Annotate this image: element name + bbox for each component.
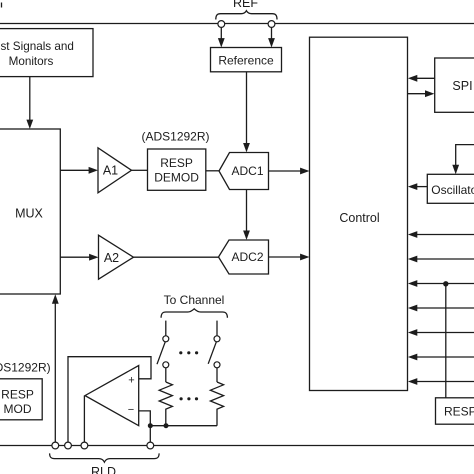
svg-text:Monitors: Monitors [9,55,54,68]
arrowhead RLD pin1 to MUX [52,294,59,303]
box Control [310,37,408,390]
svg-text:To Channel: To Channel [164,293,225,307]
wire ADC1 to Control [269,170,303,172]
wire right pin line 1 to Control [416,234,474,236]
arrowhead Control to SPI [425,90,434,97]
wire Oscillator to Control [416,186,427,188]
svg-text:(ADS1292R): (ADS1292R) [0,361,51,375]
wire Reference to ADC1 [246,72,248,146]
wire A1 to RESP DEMOD [132,169,148,171]
svg-text:Test Signals and: Test Signals and [0,40,74,53]
arrowhead REF pin2 to Reference [268,38,275,47]
svg-text:(ADS1292R): (ADS1292R) [141,130,209,144]
svg-text:REF: REF [233,0,258,10]
svg-text:−: − [128,404,134,416]
svg-text:RESP: RESP [444,405,474,419]
switch right blade [208,342,216,364]
arrowhead Reference to ADC1 [243,143,250,152]
box Test Signals and Monitors [0,29,93,77]
box Reference [211,48,282,72]
dots ellipsis resistors [180,397,183,400]
svg-text:A2: A2 [104,251,119,265]
wire resistor bottoms bus [150,425,217,427]
ADC1 pentagon [219,153,269,190]
box MUX [0,129,60,294]
wire RLD pin 2 to op-amp + input [68,357,151,443]
wire clock input to Oscillator [456,145,474,167]
wire bottom chip edge line [0,445,474,447]
pin circle RLD 4 [147,442,154,449]
wire left switch top stub [165,321,167,336]
arrowhead right line 4 [408,305,417,312]
switch left blade [157,342,165,365]
wire right switch to resistor [216,368,218,382]
junction dot resistor bus left [148,423,153,428]
arrowhead right line 7 [408,378,417,385]
wire A2 to ADC2 [134,256,219,258]
svg-text:A1: A1 [103,164,118,178]
junction dot resistor bus mid [164,423,169,428]
wire Test box to MUX arrow [29,77,31,123]
amplifier A1 [98,148,132,193]
svg-text:ADC1: ADC1 [231,164,263,178]
arrowhead SPI to Control [408,75,417,82]
arrowhead Oscillator to Control [408,183,417,190]
box RESP [436,398,474,424]
svg-text:RESP: RESP [1,387,34,401]
arrowhead right line 6 [408,354,417,361]
wire Control to SPI [408,93,428,95]
box RESP MOD [0,379,42,420]
arrowhead MUX to A2 [89,254,98,261]
brace To Channel [161,309,227,318]
junction diamond on right line 3 [443,281,448,286]
pin circle REF 2 [268,21,275,28]
wire right pin line 6 to Control [416,356,474,358]
svg-text:ADC2: ADC2 [231,250,263,264]
pin circle RLD 3 [81,442,88,449]
dots ellipsis switches [179,351,182,354]
switch circle left top [163,336,169,342]
wire right pin line 4 to Control [416,307,474,309]
wire right switch top stub [216,321,218,336]
svg-text:MUX: MUX [15,207,43,221]
wire RLD pin 1 to MUX [54,302,56,443]
brace RLD [50,453,160,462]
pin circle RLD 1 [52,442,59,449]
pin circle REF 1 [218,21,225,28]
box SPI [435,58,474,112]
arrowhead right line 3 [408,280,417,287]
pin circle RLD 2 [65,442,72,449]
wire junction to RESP box [445,284,447,398]
arrowhead right line 5 [408,329,417,336]
switch circle right bottom [214,362,220,368]
op-amp RLD amplifier [85,366,139,426]
arrowhead ADC1 to Control [300,168,309,175]
wire right pin line 5 to Control [416,332,474,334]
arrowhead MUX to A1 [89,167,98,174]
arrowhead Test to MUX [26,120,33,129]
wire ADC1 to ADC2 [246,190,248,234]
wire RESP DEMOD to ADC1 [206,170,219,172]
wire REF pin 2 to Reference [271,27,273,40]
wire stub top-left (cropped element) [1,3,3,8]
wire op-amp - input to RLD pin 4 [139,411,150,442]
svg-text:RLD: RLD [91,465,116,474]
wire right pin line 2 to Control [416,258,474,260]
arrowhead right line 2 [408,256,417,263]
wire MUX to A2 [60,256,91,258]
box RESP DEMOD [148,149,206,190]
arrowhead ADC2 to Control [300,254,309,261]
svg-text:+: + [128,374,134,386]
box Oscillator [427,174,474,203]
wire SPI to Control [416,77,435,79]
switch circle right top [214,336,220,342]
wire ADC2 to Control [269,256,303,258]
resistor right [210,382,223,426]
wire RLD pin 3 to op-amp output [83,396,85,443]
svg-text:SPI: SPI [452,79,472,93]
brace REF [216,11,277,20]
arrowhead right line 1 [408,231,417,238]
svg-text:MOD: MOD [4,402,32,416]
svg-text:Control: Control [339,211,379,225]
wire MUX to A1 [60,169,91,171]
switch circle left bottom [163,362,169,368]
arrowhead clock to Oscillator [452,165,459,174]
svg-text:Oscillator: Oscillator [431,183,474,197]
wire right pin line 3 to Control [416,283,474,285]
wire right pin line 7 to Control [416,381,474,383]
wire top supply line [0,23,474,25]
wire left switch to resistor [165,368,167,382]
arrowhead REF pin1 to Reference [218,38,225,47]
wire REF pin 1 to Reference [220,27,222,40]
svg-text:Reference: Reference [218,53,274,67]
arrowhead ADC1 to ADC2 [243,231,250,240]
ADC2 pentagon [219,240,269,274]
svg-text:RESP: RESP [160,156,193,170]
resistor left [159,382,172,426]
amplifier A2 [99,235,134,279]
svg-text:DEMOD: DEMOD [154,171,199,185]
